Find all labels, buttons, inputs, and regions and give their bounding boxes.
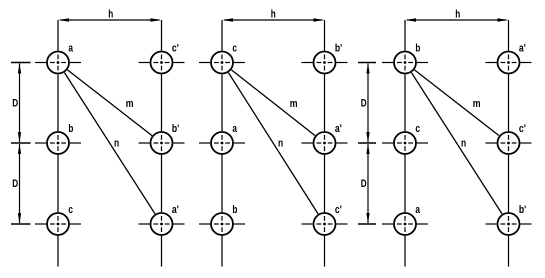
conductor a' (panel 2 right row 2) [302,123,348,154]
svg-text:h: h [455,9,460,21]
dimension D lower (panel 1) [11,143,31,224]
svg-text:a': a' [519,43,526,55]
svg-text:c: c [68,204,73,216]
svg-text:D: D [361,178,367,190]
svg-text:D: D [361,97,367,109]
svg-text:n: n [461,138,466,150]
dimension h (panel 2) [223,9,325,22]
conductor b' (panel 3 right row 3) [486,204,532,235]
svg-text:D: D [12,97,18,109]
svg-text:b: b [415,43,420,55]
pole centerline right (panel 3) [508,20,510,267]
conductor b' (panel 1 right row 2) [139,123,185,154]
svg-text:c: c [232,43,237,55]
svg-text:a: a [68,43,73,55]
svg-text:D: D [12,178,18,190]
svg-text:b': b' [335,43,343,55]
conductor a' (panel 1 right row 3) [139,204,185,235]
conductor c (panel 3 left row 2) [382,123,428,154]
dimension D lower (panel 3) [358,143,376,224]
dimension h (panel 1) [59,9,162,22]
conductor b (panel 3 left row 1) [382,43,428,74]
line n (panel 1) [64,73,155,214]
svg-text:n: n [278,138,283,150]
svg-text:b: b [232,204,237,216]
conductor b (panel 2 left row 3) [199,204,245,235]
conductor c (panel 1 left row 3) [35,204,81,235]
conductor c' (panel 2 right row 3) [302,204,348,235]
pole centerline left (panel 3) [404,20,406,267]
conductor a (panel 1 left row 1) [35,43,81,74]
conductor b (panel 1 left row 2) [35,123,81,154]
svg-text:c: c [415,123,420,135]
line m (panel 1) [67,70,152,136]
svg-text:b': b' [172,123,180,135]
dimension D upper (panel 3) [358,63,376,143]
line m (panel 3) [414,70,499,136]
pole centerline left (panel 1) [57,20,59,267]
svg-text:m: m [290,98,298,110]
conductor c' (panel 3 right row 2) [486,123,532,154]
line n (panel 2) [228,73,318,214]
line n (panel 3) [411,73,502,214]
svg-text:m: m [126,98,134,110]
svg-text:a': a' [172,204,179,216]
dimension h (panel 3) [406,9,509,22]
svg-text:m: m [473,98,481,110]
svg-text:c': c' [519,123,526,135]
svg-text:c': c' [172,43,179,55]
svg-text:h: h [271,9,276,21]
svg-text:b': b' [519,204,527,216]
svg-text:a: a [232,123,237,135]
conductor a (panel 3 left row 3) [382,204,428,235]
pole centerline right (panel 2) [324,20,326,267]
svg-text:c': c' [335,204,342,216]
svg-text:n: n [114,138,119,150]
conductor a (panel 2 left row 2) [199,123,245,154]
svg-text:b: b [68,123,73,135]
svg-text:a: a [415,204,420,216]
conductor c' (panel 1 right row 1) [139,43,185,74]
line m (panel 2) [231,70,315,136]
pole centerline left (panel 2) [221,20,223,267]
dimension D upper (panel 1) [11,63,31,143]
conductor b' (panel 2 right row 1) [302,43,348,74]
pole centerline right (panel 1) [161,20,163,267]
conductor c (panel 2 left row 1) [199,43,245,74]
conductor a' (panel 3 right row 1) [486,43,532,74]
svg-text:h: h [108,9,113,21]
svg-text:a': a' [335,123,342,135]
